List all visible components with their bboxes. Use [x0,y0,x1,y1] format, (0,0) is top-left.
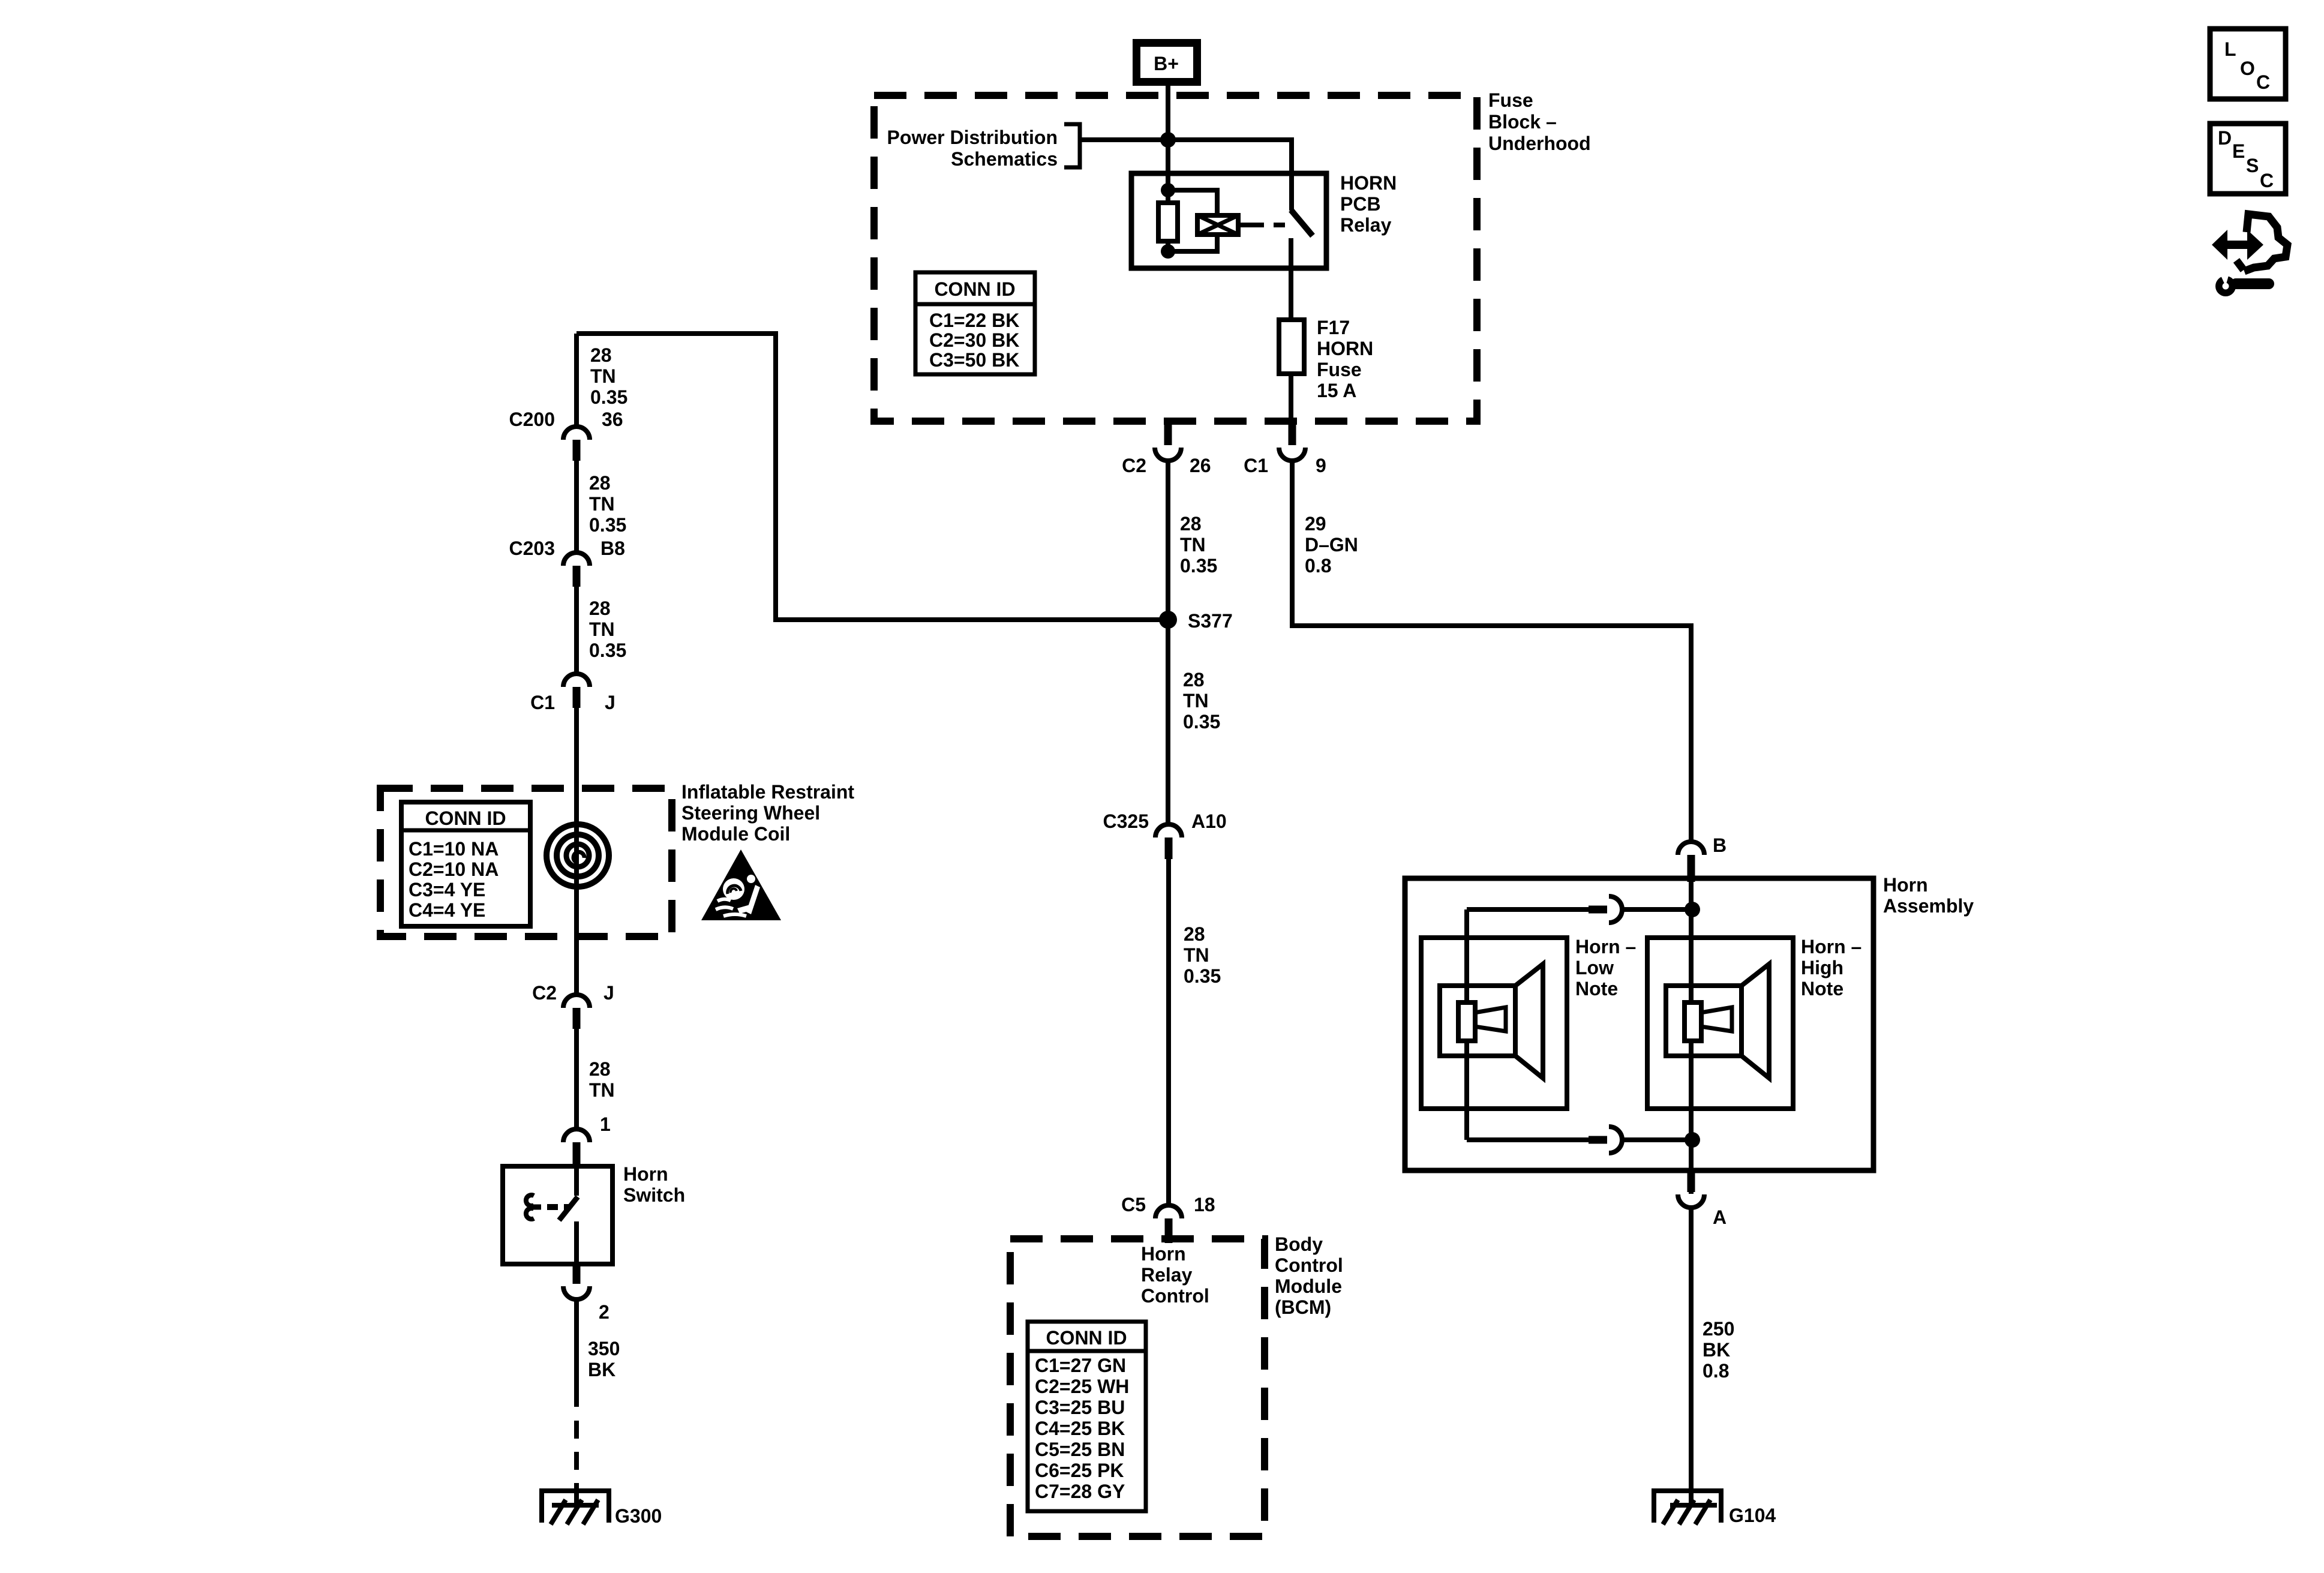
svg-text:D–GN: D–GN [1305,534,1358,556]
svg-text:C4=25 BK: C4=25 BK [1035,1418,1125,1439]
svg-text:HORN: HORN [1340,172,1397,194]
svg-text:S: S [2246,155,2259,176]
svg-text:O: O [2240,58,2255,79]
svg-text:0.35: 0.35 [589,514,626,536]
svg-text:C2=10 NA: C2=10 NA [409,858,499,880]
svg-text:C200: C200 [509,409,556,430]
svg-text:Module Coil: Module Coil [681,823,790,845]
svg-text:0.8: 0.8 [1305,555,1331,577]
svg-text:C5: C5 [1121,1194,1146,1215]
svg-text:F17: F17 [1317,317,1350,338]
svg-text:Control: Control [1275,1254,1343,1276]
svg-text:Fuse: Fuse [1488,89,1533,111]
svg-text:CONN ID: CONN ID [934,278,1015,300]
svg-text:Horn: Horn [1883,874,1928,896]
svg-text:28: 28 [589,598,611,619]
svg-text:250: 250 [1703,1318,1734,1340]
svg-text:TN: TN [589,493,615,515]
svg-text:C2: C2 [532,982,557,1004]
svg-text:Horn –: Horn – [1575,936,1636,957]
svg-text:PCB: PCB [1340,193,1381,215]
svg-text:BK: BK [1703,1339,1730,1361]
svg-text:C3=25 BU: C3=25 BU [1035,1397,1125,1418]
svg-text:CONN ID: CONN ID [425,807,506,829]
svg-text:C2=30 BK: C2=30 BK [929,329,1019,351]
svg-text:Assembly: Assembly [1883,895,1974,917]
svg-text:0.35: 0.35 [1183,711,1220,733]
svg-text:Module: Module [1275,1275,1342,1297]
svg-text:C2=25 WH: C2=25 WH [1035,1376,1129,1397]
svg-text:0.35: 0.35 [1180,555,1217,577]
svg-text:1: 1 [600,1113,611,1135]
svg-text:C: C [2256,71,2270,93]
svg-text:Body: Body [1275,1233,1323,1255]
svg-text:Horn: Horn [1141,1243,1186,1265]
svg-text:18: 18 [1194,1194,1215,1215]
svg-text:B: B [1713,834,1727,856]
svg-text:15 A: 15 A [1317,380,1356,401]
svg-text:0.8: 0.8 [1703,1360,1729,1382]
svg-text:G300: G300 [615,1505,662,1527]
svg-text:29: 29 [1305,513,1326,535]
svg-text:Low: Low [1575,957,1614,978]
svg-text:Switch: Switch [623,1184,685,1206]
svg-text:28: 28 [1183,669,1205,691]
svg-text:C3=4 YE: C3=4 YE [409,879,485,900]
svg-text:28: 28 [589,1058,611,1080]
svg-text:Note: Note [1575,978,1618,999]
svg-text:C203: C203 [509,538,556,559]
svg-text:C: C [2260,170,2274,191]
svg-text:J: J [603,982,614,1004]
svg-text:9: 9 [1316,455,1326,476]
svg-text:C1=10 NA: C1=10 NA [409,838,499,860]
svg-text:S377: S377 [1188,610,1233,632]
svg-text:HORN: HORN [1317,338,1373,359]
svg-text:BK: BK [588,1359,615,1380]
svg-text:Inflatable Restraint: Inflatable Restraint [681,781,854,803]
svg-text:L: L [2224,38,2236,60]
svg-text:Power Distribution: Power Distribution [887,127,1058,148]
svg-text:A10: A10 [1191,810,1227,832]
svg-text:G104: G104 [1729,1505,1776,1526]
svg-text:CONN ID: CONN ID [1046,1327,1127,1349]
svg-text:TN: TN [1180,534,1206,556]
svg-text:B8: B8 [600,538,625,559]
svg-text:High: High [1801,957,1843,978]
svg-text:TN: TN [589,1079,615,1101]
svg-text:(BCM): (BCM) [1275,1296,1331,1318]
svg-text:26: 26 [1190,455,1211,476]
svg-text:28: 28 [590,344,612,366]
svg-text:C1: C1 [530,692,555,713]
svg-text:TN: TN [1184,944,1209,966]
svg-text:J: J [605,692,615,713]
svg-text:A: A [1713,1206,1727,1228]
svg-text:C1=22 BK: C1=22 BK [929,310,1019,331]
svg-text:C6=25 PK: C6=25 PK [1035,1460,1124,1481]
svg-text:Relay: Relay [1141,1264,1193,1286]
svg-text:28: 28 [1184,923,1205,945]
svg-text:C4=4 YE: C4=4 YE [409,899,485,921]
svg-text:Horn: Horn [623,1163,668,1185]
svg-text:C1=27 GN: C1=27 GN [1035,1355,1126,1376]
svg-text:C5=25 BN: C5=25 BN [1035,1439,1125,1460]
svg-text:Horn –: Horn – [1801,936,1861,957]
svg-text:2: 2 [599,1301,609,1323]
svg-text:TN: TN [589,619,615,640]
svg-text:C325: C325 [1103,810,1149,832]
svg-text:0.35: 0.35 [590,386,627,408]
svg-text:Steering Wheel: Steering Wheel [681,802,820,824]
svg-text:E: E [2232,140,2245,162]
svg-text:Relay: Relay [1340,214,1392,236]
svg-text:0.35: 0.35 [589,640,626,661]
svg-text:C1: C1 [1244,455,1268,476]
svg-text:Note: Note [1801,978,1843,999]
svg-text:Fuse: Fuse [1317,359,1362,380]
svg-text:Block –: Block – [1488,111,1557,133]
svg-text:36: 36 [602,409,623,430]
svg-text:TN: TN [590,365,616,387]
svg-text:TN: TN [1183,690,1209,712]
svg-text:0.35: 0.35 [1184,965,1221,987]
svg-text:28: 28 [1180,513,1202,535]
svg-text:Control: Control [1141,1285,1209,1307]
svg-text:28: 28 [589,472,611,494]
svg-text:C7=28 GY: C7=28 GY [1035,1481,1125,1502]
svg-text:B+: B+ [1154,53,1179,74]
svg-text:Underhood: Underhood [1488,133,1591,154]
svg-text:C2: C2 [1122,455,1146,476]
svg-text:Schematics: Schematics [951,148,1058,170]
svg-text:C3=50 BK: C3=50 BK [929,349,1019,371]
svg-text:350: 350 [588,1338,620,1359]
svg-text:D: D [2218,127,2232,149]
